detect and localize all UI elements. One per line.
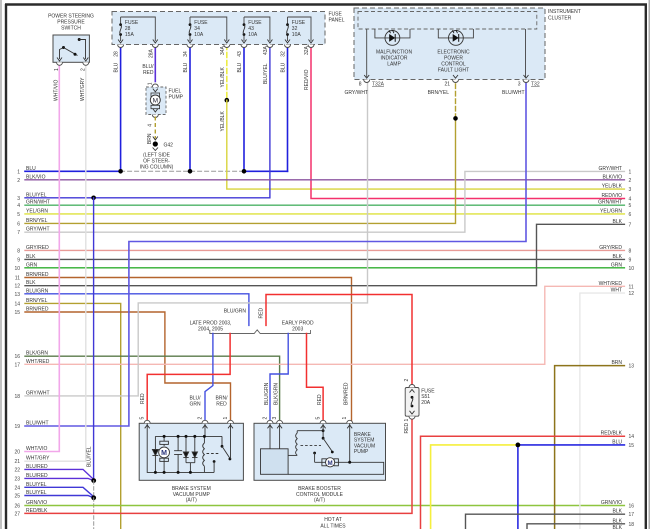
wire pump pin 1 rail bbox=[230, 423, 232, 459]
lamp malfunction indicator lamp bbox=[375, 29, 413, 68]
svg-text:RED: RED bbox=[404, 423, 410, 434]
svg-text:1: 1 bbox=[342, 417, 348, 420]
svg-text:11: 11 bbox=[15, 276, 20, 282]
wire net 8 GRY/RED straight bbox=[25, 249, 624, 251]
relay actuation dashed link bbox=[301, 445, 322, 447]
svg-text:4: 4 bbox=[17, 203, 20, 209]
svg-text:10A: 10A bbox=[248, 32, 258, 38]
svg-text:BLK/VIO: BLK/VIO bbox=[26, 174, 46, 180]
fuse panel wire number and color labels bbox=[114, 45, 310, 131]
svg-text:GRY/WHT: GRY/WHT bbox=[344, 90, 368, 96]
svg-text:5: 5 bbox=[140, 417, 146, 420]
node junction dots on net 1 bbox=[118, 169, 123, 174]
svg-text:16: 16 bbox=[14, 354, 20, 360]
svg-text:BLK/GRN: BLK/GRN bbox=[26, 351, 48, 357]
svg-text:6: 6 bbox=[629, 212, 632, 218]
svg-text:GRN: GRN bbox=[26, 262, 38, 268]
wire BLU fuse 43 output vertical bbox=[243, 45, 245, 172]
pump internal circuit bbox=[147, 423, 231, 474]
node pump bus junction dots bbox=[154, 435, 206, 474]
svg-text:WHT/VIO: WHT/VIO bbox=[54, 80, 60, 101]
svg-text:BLU/YEL: BLU/YEL bbox=[26, 490, 47, 496]
svg-text:BRN/RED: BRN/RED bbox=[26, 272, 49, 278]
svg-text:BLU: BLU bbox=[26, 166, 36, 172]
svg-text:WHT/GRY: WHT/GRY bbox=[80, 77, 86, 101]
fuse 32 10A bbox=[285, 17, 315, 48]
svg-text:4: 4 bbox=[148, 124, 154, 127]
wire net 15 BRN/RED left stub to pump pin 1 bbox=[25, 312, 231, 422]
svg-text:13: 13 bbox=[14, 292, 20, 298]
svg-text:SWITCH: SWITCH bbox=[61, 26, 81, 32]
svg-text:YEL/BLK: YEL/BLK bbox=[220, 111, 226, 132]
svg-text:7: 7 bbox=[629, 222, 632, 228]
svg-text:GRY/WHT: GRY/WHT bbox=[598, 166, 622, 172]
svg-text:PUMP: PUMP bbox=[169, 95, 184, 101]
wire net 11 BRN/RED left stub to module pin 1 bbox=[25, 278, 352, 423]
svg-text:BLU/YEL: BLU/YEL bbox=[87, 446, 93, 467]
wire BLU/YEL fuse 43A down to net 3 bbox=[25, 45, 270, 198]
svg-text:GRN/WHT: GRN/WHT bbox=[26, 200, 50, 206]
svg-text:BLU/WHT: BLU/WHT bbox=[502, 90, 525, 96]
svg-text:10A: 10A bbox=[292, 32, 302, 38]
svg-text:BLK: BLK bbox=[613, 509, 623, 515]
svg-text:10: 10 bbox=[14, 266, 20, 272]
svg-text:2: 2 bbox=[17, 178, 20, 184]
svg-text:2004, 2005: 2004, 2005 bbox=[198, 327, 223, 333]
terminal module pin 3 bbox=[277, 420, 283, 423]
svg-text:6: 6 bbox=[17, 221, 20, 227]
svg-text:19: 19 bbox=[14, 424, 20, 430]
svg-text:GRN: GRN bbox=[611, 262, 623, 268]
wire BLU/GRN bracket to pump pin 2 bbox=[205, 334, 213, 423]
node BLU/RED splice dot bbox=[91, 478, 96, 483]
fuse S51 20A bbox=[404, 379, 435, 434]
node BLU/YEL branch dot bbox=[91, 196, 96, 201]
svg-text:BLU: BLU bbox=[114, 62, 120, 72]
terminal pump pin 1 bbox=[228, 420, 234, 423]
svg-text:34: 34 bbox=[183, 51, 189, 57]
svg-text:43A: 43A bbox=[263, 45, 269, 55]
node YEL-BLU splice dot bbox=[516, 443, 521, 448]
svg-text:2: 2 bbox=[81, 68, 87, 71]
motor M in module bbox=[313, 452, 316, 455]
terminal module pin 2 bbox=[267, 420, 273, 423]
svg-text:10: 10 bbox=[629, 266, 635, 272]
svg-text:BLU: BLU bbox=[237, 62, 243, 72]
wire right stub 13 BRN down off-page bbox=[555, 366, 625, 529]
wire net 7 GRY/WHT left stub 7 to right stub 1 bbox=[25, 171, 624, 232]
svg-text:BLK: BLK bbox=[613, 525, 623, 529]
svg-text:RED/VIO: RED/VIO bbox=[304, 69, 310, 90]
svg-text:INSTRUMENT: INSTRUMENT bbox=[548, 9, 581, 15]
svg-text:WHT/RED: WHT/RED bbox=[599, 281, 623, 287]
terminal module pin 5 bbox=[320, 420, 326, 423]
power steering pressure switch S1 bbox=[48, 14, 94, 102]
svg-text:5: 5 bbox=[629, 203, 632, 209]
svg-text:M: M bbox=[328, 460, 333, 467]
svg-text:9: 9 bbox=[17, 257, 20, 263]
svg-text:BLU/RED: BLU/RED bbox=[26, 473, 48, 479]
svg-text:BLU/GRN: BLU/GRN bbox=[264, 382, 270, 405]
svg-text:32: 32 bbox=[281, 51, 287, 57]
svg-text:BLK: BLK bbox=[26, 254, 36, 260]
svg-text:12: 12 bbox=[629, 291, 635, 297]
svg-text:GRN/VIO: GRN/VIO bbox=[601, 500, 622, 506]
wire YEL to splice dot bbox=[431, 445, 518, 529]
svg-text:BLU/GRN: BLU/GRN bbox=[26, 288, 49, 294]
svg-text:PANEL: PANEL bbox=[329, 18, 345, 24]
wire right stub 15 BLU from splice dot bbox=[518, 444, 625, 446]
svg-text:BLK: BLK bbox=[613, 219, 623, 225]
svg-text:GRY/RED: GRY/RED bbox=[26, 245, 49, 251]
svg-text:15: 15 bbox=[629, 443, 635, 449]
svg-text:RED: RED bbox=[216, 402, 227, 408]
terminal cluster pin 21 bbox=[453, 75, 458, 78]
wire net 1 solid right part to fuse 32 bbox=[244, 170, 288, 172]
svg-text:YEL/BLK: YEL/BLK bbox=[220, 67, 226, 88]
diode D3 bbox=[194, 436, 196, 452]
wire net 4 GRN/WHT straight bbox=[25, 204, 624, 206]
terminal pump pin 5 bbox=[144, 420, 150, 423]
svg-text:18: 18 bbox=[14, 394, 20, 400]
wire net 6 BRN/YEL left stub to instrument cluster pin 21 bbox=[25, 118, 456, 223]
wire pump left rail from pin 5 bbox=[147, 423, 214, 472]
svg-text:3: 3 bbox=[518, 82, 521, 88]
svg-text:15: 15 bbox=[14, 310, 20, 316]
svg-text:BRN/YEL: BRN/YEL bbox=[428, 90, 450, 96]
svg-text:1: 1 bbox=[404, 419, 410, 422]
wire dashed splice down bbox=[93, 481, 95, 498]
wire net 1 BLU bus: left stub 1 to fuse BLU outputs bbox=[25, 170, 121, 172]
wire BLU/RED fuse 28A to fuel pump bbox=[154, 45, 156, 82]
wire net 24 BLU/YEL stub bbox=[25, 487, 94, 498]
svg-text:BLU/WHT: BLU/WHT bbox=[26, 421, 49, 427]
svg-text:7: 7 bbox=[17, 230, 20, 236]
svg-text:FAULT LIGHT: FAULT LIGHT bbox=[438, 68, 469, 74]
svg-text:RED/VIO: RED/VIO bbox=[601, 193, 622, 199]
svg-text:BLU/YEL: BLU/YEL bbox=[26, 482, 47, 488]
wire BLU fuse 28 output vertical bbox=[120, 45, 122, 172]
svg-text:14: 14 bbox=[629, 434, 635, 440]
svg-text:12: 12 bbox=[14, 284, 20, 290]
svg-text:BLK: BLK bbox=[613, 254, 623, 260]
svg-text:WHT/VIO: WHT/VIO bbox=[26, 446, 47, 452]
wire YEL/BLK solid lower to right stub 3 bbox=[227, 100, 625, 189]
wire net 25 BLU/YEL stub bbox=[25, 496, 94, 498]
node YEL/BLK junction dot bbox=[225, 98, 230, 103]
svg-text:RED/BLK: RED/BLK bbox=[601, 431, 623, 437]
wire BLU/GRN bracket to module pin 2 bbox=[270, 334, 288, 423]
svg-text:BLU: BLU bbox=[281, 62, 287, 72]
module internal circuit bbox=[261, 423, 384, 474]
fuse panel box bbox=[112, 12, 345, 45]
svg-text:YEL/BLK: YEL/BLK bbox=[602, 184, 623, 190]
svg-text:1: 1 bbox=[54, 68, 60, 71]
svg-text:BLU: BLU bbox=[612, 439, 622, 445]
wire net 16 BLK/GRN left stub to module pin 3 bbox=[25, 356, 280, 422]
terminal pin 2 of switch bbox=[83, 62, 89, 65]
svg-text:GRN/WHT: GRN/WHT bbox=[598, 200, 622, 206]
svg-text:18: 18 bbox=[629, 522, 635, 528]
terminal pin 1 of switch bbox=[57, 62, 63, 65]
svg-text:T32A: T32A bbox=[372, 82, 385, 88]
svg-text:GRN/VIO: GRN/VIO bbox=[26, 500, 47, 506]
terminal pump pin 2 bbox=[202, 420, 208, 423]
ground G42 bbox=[140, 137, 174, 171]
svg-text:BRN/YEL: BRN/YEL bbox=[26, 298, 48, 304]
svg-text:M: M bbox=[161, 450, 167, 457]
svg-text:21: 21 bbox=[14, 459, 20, 465]
svg-text:GRY/RED: GRY/RED bbox=[599, 245, 622, 251]
svg-text:ING COLUMN): ING COLUMN) bbox=[140, 165, 174, 171]
svg-text:ALL TIMES: ALL TIMES bbox=[320, 524, 346, 529]
svg-text:2003: 2003 bbox=[292, 327, 303, 333]
relay coil L2 bbox=[296, 433, 298, 455]
svg-text:23: 23 bbox=[14, 476, 20, 482]
wire BLU fuse 32 output vertical bbox=[287, 45, 289, 172]
svg-text:43: 43 bbox=[237, 51, 243, 57]
svg-text:20: 20 bbox=[14, 450, 20, 456]
svg-text:RED: RED bbox=[143, 70, 154, 76]
svg-text:5: 5 bbox=[315, 417, 321, 420]
svg-text:28: 28 bbox=[114, 51, 120, 57]
wire right stub 14 RED/BLK down off-page bbox=[421, 436, 625, 529]
wire net 18 GRY/WHT left stub up to cluster pin 8 bbox=[25, 81, 368, 396]
svg-text:1: 1 bbox=[629, 169, 632, 175]
svg-text:BLK: BLK bbox=[26, 280, 36, 286]
svg-text:26: 26 bbox=[14, 504, 20, 510]
svg-text:2: 2 bbox=[262, 417, 268, 420]
svg-text:3: 3 bbox=[272, 417, 278, 420]
wire cluster left rail to pin 8 bbox=[366, 29, 368, 77]
diode D1 bbox=[154, 436, 156, 472]
svg-text:GRY/WHT: GRY/WHT bbox=[26, 390, 50, 396]
svg-text:LAMP: LAMP bbox=[387, 62, 401, 68]
wire net 13 BLU/GRN left stub to dead-end above bracket bbox=[25, 294, 249, 326]
capacitor C1 bbox=[177, 436, 179, 472]
svg-text:4: 4 bbox=[629, 197, 632, 203]
svg-text:1: 1 bbox=[17, 169, 20, 175]
svg-text:17: 17 bbox=[14, 362, 20, 368]
fuse 43 10A bbox=[241, 17, 273, 48]
svg-text:2: 2 bbox=[629, 178, 632, 184]
svg-text:BLK: BLK bbox=[613, 518, 623, 524]
bracket late/early prod selector bbox=[210, 330, 311, 334]
wire net 21 WHT/GRY left stub to pressure switch pin 2 bbox=[25, 64, 86, 461]
wire right stub 18 BLK down off-page bbox=[527, 524, 624, 529]
svg-text:GRN: GRN bbox=[189, 402, 201, 408]
wire dashed splice segment of net 1 bbox=[121, 170, 244, 172]
svg-text:BRN: BRN bbox=[147, 133, 153, 144]
wire RED/VIO fuse 32A to right stub 4 bbox=[311, 45, 624, 199]
svg-text:34A: 34A bbox=[220, 45, 226, 55]
wire pump top bus bbox=[155, 435, 222, 437]
terminal cluster pin 3 bbox=[524, 75, 529, 78]
wire RED early prod: dead-end stub to fuse S51 top bbox=[266, 295, 412, 388]
svg-text:21: 21 bbox=[444, 82, 450, 88]
svg-text:BLK/GRN: BLK/GRN bbox=[273, 383, 279, 405]
ecu sub-box bbox=[261, 449, 289, 475]
svg-text:BLU/YEL: BLU/YEL bbox=[263, 63, 269, 84]
wire BRN/YEL dashed upper to cluster bbox=[455, 84, 457, 118]
svg-text:BRN/RED: BRN/RED bbox=[344, 382, 350, 405]
switch contact in module bbox=[322, 429, 325, 432]
svg-text:3: 3 bbox=[17, 196, 20, 202]
wire BRN fuel pump to ground bbox=[154, 117, 156, 139]
brake system vacuum pump box M2 bbox=[139, 393, 243, 504]
svg-text:YEL/GRN: YEL/GRN bbox=[600, 208, 622, 214]
switch contact in pump bbox=[221, 436, 223, 445]
svg-text:GRY/WHT: GRY/WHT bbox=[26, 227, 50, 233]
svg-text:WHT: WHT bbox=[611, 288, 622, 294]
svg-text:8: 8 bbox=[359, 82, 362, 88]
svg-text:RED: RED bbox=[317, 394, 323, 405]
svg-text:BLU/RED: BLU/RED bbox=[26, 464, 48, 470]
svg-text:BLU/GRN: BLU/GRN bbox=[224, 309, 247, 315]
wire net 10 GRN straight bbox=[25, 267, 624, 269]
svg-text:11: 11 bbox=[629, 284, 634, 290]
relay actuation dashed link bbox=[207, 453, 220, 455]
svg-text:10A: 10A bbox=[194, 32, 204, 38]
lamp electronic power control fault light bbox=[437, 29, 473, 74]
svg-text:RED: RED bbox=[140, 393, 146, 404]
svg-text:WHT/GRY: WHT/GRY bbox=[26, 456, 50, 462]
svg-text:3: 3 bbox=[629, 187, 632, 193]
svg-text:9: 9 bbox=[629, 257, 632, 263]
wire net 20 WHT/VIO left stub to pressure switch pin 1 bbox=[25, 64, 59, 452]
svg-text:CLUSTER: CLUSTER bbox=[548, 16, 572, 22]
brake booster control module box U1 bbox=[254, 382, 386, 503]
terminal cluster pin 8 bbox=[364, 75, 369, 78]
wire cluster right rail to pin 3 bbox=[525, 29, 527, 77]
fuse 34 10A bbox=[187, 17, 230, 48]
diode D2 bbox=[185, 436, 187, 452]
wire net 22 BLU/RED stub bbox=[25, 469, 94, 480]
wire net 27 RED/BLK left stub to fuse S51 bbox=[25, 416, 412, 513]
fuel pump M1 bbox=[146, 82, 184, 144]
svg-text:25: 25 bbox=[14, 494, 20, 500]
svg-text:RED: RED bbox=[259, 308, 265, 319]
wire net 12 BLK left stub to right stub 7 bbox=[25, 224, 624, 285]
relay coil L1 bbox=[203, 436, 205, 443]
wire YEL/BLK fuse 34A dashed upper bbox=[226, 45, 228, 101]
wire RED bracket to pump pin 5 bbox=[147, 334, 230, 423]
wire BLU/YEL main vertical branch bbox=[93, 198, 95, 481]
svg-text:BRN/RED: BRN/RED bbox=[26, 307, 49, 313]
wire net 19 BLU/WHT left stub to cluster pin 3 bbox=[25, 81, 526, 426]
svg-text:13: 13 bbox=[629, 364, 635, 370]
wire net 23 BLU/RED stub bbox=[25, 478, 94, 480]
svg-text:BLU/YEL: BLU/YEL bbox=[26, 192, 47, 198]
wire dashed splice off-page bbox=[93, 498, 95, 529]
wire net 26 GRN/VIO straight bbox=[25, 505, 624, 507]
motor pump M bbox=[163, 436, 165, 446]
svg-text:8: 8 bbox=[629, 248, 632, 254]
svg-text:8: 8 bbox=[17, 248, 20, 254]
fuse 28 15A bbox=[118, 17, 159, 48]
svg-text:2: 2 bbox=[197, 417, 203, 420]
wire BLU vertical off-page from splice bbox=[517, 445, 519, 529]
svg-text:(A/T): (A/T) bbox=[314, 498, 325, 504]
svg-text:BLK/VIO: BLK/VIO bbox=[603, 174, 623, 180]
svg-text:14: 14 bbox=[14, 301, 20, 307]
svg-text:1: 1 bbox=[223, 417, 229, 420]
svg-text:24: 24 bbox=[14, 485, 20, 491]
svg-text:PUMP: PUMP bbox=[354, 449, 369, 455]
svg-text:5: 5 bbox=[17, 212, 20, 218]
svg-text:32A: 32A bbox=[304, 45, 310, 55]
svg-text:20A: 20A bbox=[421, 400, 431, 406]
svg-text:27: 27 bbox=[14, 511, 20, 517]
svg-text:28A: 28A bbox=[148, 48, 154, 58]
svg-text:M: M bbox=[153, 97, 158, 104]
svg-text:(A/T): (A/T) bbox=[186, 498, 197, 504]
svg-text:T32: T32 bbox=[531, 82, 540, 88]
wire net 9 BLK straight bbox=[25, 258, 624, 260]
svg-text:BLU: BLU bbox=[183, 62, 189, 72]
svg-text:WHT/RED: WHT/RED bbox=[26, 359, 50, 365]
svg-text:15A: 15A bbox=[125, 32, 135, 38]
svg-text:BRN: BRN bbox=[611, 360, 622, 366]
svg-text:16: 16 bbox=[629, 504, 635, 510]
terminal module pin 1 bbox=[347, 420, 353, 423]
svg-text:YEL/GRN: YEL/GRN bbox=[26, 208, 48, 214]
wire right stub 12 WHT down off-page bbox=[580, 293, 625, 529]
node BRN/YEL junction dot bbox=[453, 116, 458, 121]
wire net 5 YEL/GRN straight bbox=[25, 213, 624, 215]
svg-text:G42: G42 bbox=[164, 143, 174, 149]
wire net 17 WHT/RED left stub to right stub 11 bbox=[25, 286, 624, 364]
svg-text:17: 17 bbox=[629, 512, 635, 518]
wire net 2 BLK/VIO straight bbox=[25, 179, 624, 181]
svg-text:2: 2 bbox=[404, 379, 410, 382]
wire right stub 17 BLK down off-page bbox=[466, 514, 625, 529]
instrument cluster box bbox=[344, 8, 580, 96]
wire RED bracket to module pin 5 bbox=[307, 334, 324, 423]
node BLU/YEL splice dot bbox=[91, 495, 96, 500]
wire net 14 BRN/YEL left stub down off-page bbox=[25, 303, 121, 529]
svg-text:HOT AT: HOT AT bbox=[324, 517, 342, 523]
wire BLU fuse 34 output vertical bbox=[189, 45, 191, 172]
svg-text:22: 22 bbox=[14, 467, 20, 473]
svg-text:BRN/YEL: BRN/YEL bbox=[26, 218, 48, 224]
svg-text:RED/BLK: RED/BLK bbox=[26, 508, 48, 514]
